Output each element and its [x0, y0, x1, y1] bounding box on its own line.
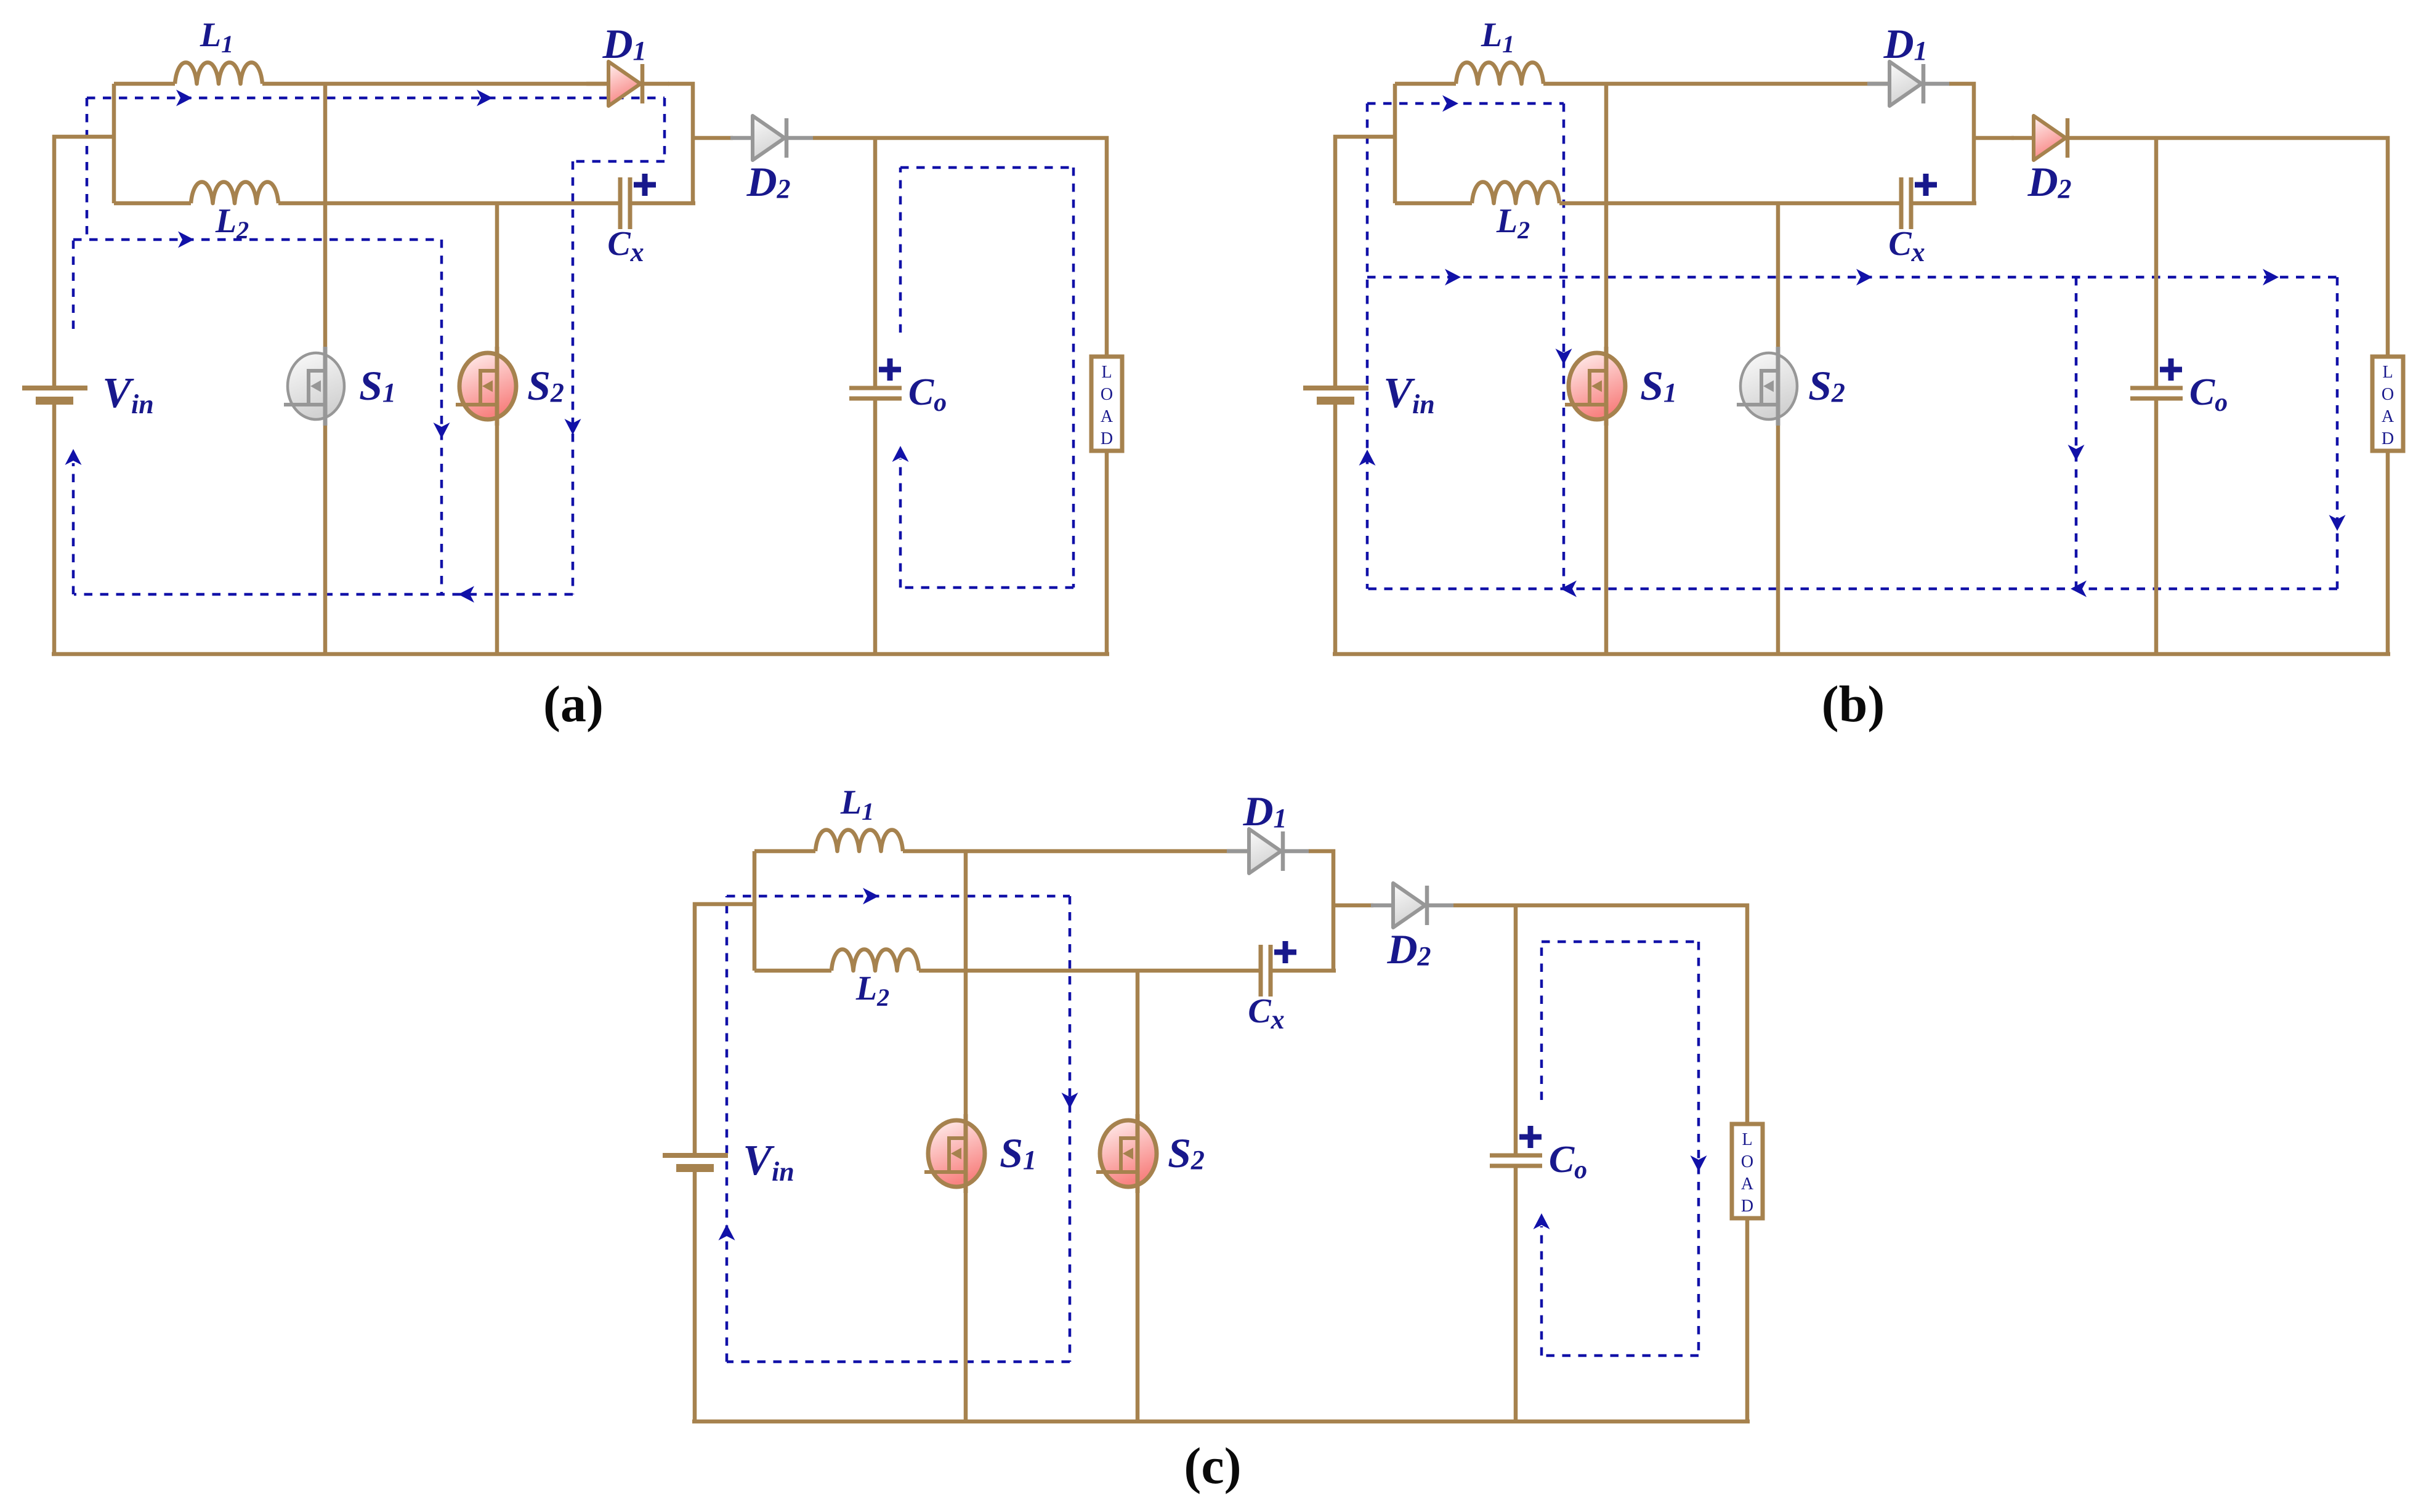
wire: dashed current path b-L1 top run	[1367, 95, 1564, 112]
wire: dashed current path a down right of S2	[565, 161, 581, 594]
wire: circuit b Co branch from output rail down to top plate	[2154, 138, 2159, 386]
wire: circuit b L2 rail from coil to Cx left plate	[1559, 201, 1899, 206]
capacitor Cx of circuit a	[620, 177, 630, 229]
wire: dashed input loop c right	[1062, 896, 1078, 1362]
capacitor Cx of circuit c	[1261, 945, 1271, 997]
wire: circuit a Cx right plate to corner below D1	[632, 201, 695, 206]
svg-text:L: L	[1742, 1130, 1752, 1149]
wire: circuit c Cx right plate to corner below D1	[1272, 969, 1336, 973]
wire: circuit c S1 branch from top rail down to bottom rail	[964, 851, 968, 1421]
wire: dashed output loop c bottom	[1545, 1354, 1699, 1357]
wire: circuit b battery negative lead down to bottom rail	[1333, 402, 1338, 654]
LOAD resistor of circuit c	[1732, 1124, 1763, 1218]
wire: circuit b node below D1 to D2 anode	[1974, 136, 2014, 140]
wire: circuit a top rail from node to L1	[114, 82, 175, 86]
wire: dashed output loop c top	[1542, 940, 1699, 944]
battery Vin of circuit c	[663, 1155, 728, 1172]
wire: dashed current path b down left of Co	[2068, 277, 2085, 589]
wire: circuit a L2 rail from node to L2 coil	[114, 201, 191, 206]
wire: dashed current path a leftward above Cx	[573, 160, 665, 163]
transistor S1 of circuit a	[284, 347, 344, 426]
wire: circuit a S2 branch from L2 rail down to bottom rail	[495, 203, 499, 654]
plus sign at Co of circuit c	[1519, 1126, 1542, 1148]
wire: circuit c L2 rail from coil to Cx left plate	[919, 969, 1259, 973]
diode D1 of circuit c	[1227, 829, 1309, 873]
wire: circuit a D1 cathode to corner and down to Cx node	[668, 84, 693, 203]
wire: circuit a L2 rail from coil to Cx left plate	[278, 201, 618, 206]
wire: circuit a Co branch from output rail down to top plate	[873, 138, 878, 386]
battery Vin of circuit a	[22, 388, 87, 405]
wire: dashed input loop c left	[719, 896, 735, 1362]
wire: dashed current path b left vertical	[1359, 103, 1376, 589]
wire: circuit b Cx right plate to corner below D1	[1913, 201, 1976, 206]
svg-text:D: D	[1101, 429, 1113, 448]
diode D2 of circuit b	[2011, 116, 2094, 160]
diode D1 of circuit a	[586, 62, 669, 106]
plus sign at Cx of circuit b	[1915, 174, 1937, 196]
LOAD resistor of circuit b	[2372, 357, 2403, 451]
wire: circuit c D1 cathode to corner and down to Cx node	[1309, 851, 1333, 971]
wire: dashed current path a bottom return	[74, 586, 573, 603]
inductor L2 of circuit a	[191, 182, 278, 204]
inductor L1 of circuit b	[1456, 63, 1543, 84]
wire: circuit b output rail down to LOAD and bottom rail	[2386, 451, 2390, 654]
wire: dashed current path b bottom return	[1367, 581, 2337, 597]
svg-text:(a): (a)	[543, 676, 604, 733]
transistor S1 of circuit c	[924, 1114, 985, 1193]
diode D1 of circuit b	[1867, 62, 1950, 106]
wire: circuit a node below D1 to D2 anode	[693, 136, 733, 140]
plus sign at Co of circuit a	[879, 358, 901, 381]
svg-text:O: O	[1101, 385, 1113, 404]
wire: dashed current path a return up to battery	[65, 240, 82, 594]
plus sign at Co of circuit b	[2160, 358, 2182, 381]
wire: circuit b L2 rail from node to L2 coil	[1395, 201, 1472, 206]
svg-text:O: O	[2382, 385, 2394, 404]
wire: circuit b left vertical joining L1 and L2 rails	[1393, 84, 1397, 203]
svg-text:(b): (b)	[1822, 676, 1885, 733]
wire: circuit a battery positive lead up and right to input node	[54, 137, 114, 386]
transistor S1 of circuit b	[1565, 347, 1625, 426]
wire: circuit a left vertical joining L1 and L2 rails	[112, 84, 116, 203]
plus sign at Cx of circuit c	[1274, 941, 1296, 963]
capacitor Cx of circuit b	[1901, 177, 1911, 229]
wire: dashed input loop c bottom	[727, 1360, 1070, 1364]
inductor L2 of circuit b	[1472, 182, 1559, 204]
wire: circuit a D2 cathode to output rail and right corner	[813, 138, 1107, 357]
wire: circuit c battery negative lead down to bottom rail	[693, 1170, 697, 1421]
LOAD resistor of circuit a	[1091, 357, 1122, 451]
wire: dashed output loop c left with arrow up through Co	[1534, 942, 1550, 1356]
wire: circuit c top rail from node to L1	[754, 849, 815, 854]
svg-text:D: D	[2382, 429, 2394, 448]
wire: dashed output loop a top	[900, 166, 1073, 169]
capacitor Co of circuit c	[1490, 1155, 1542, 1166]
svg-text:A: A	[2382, 407, 2395, 426]
inductor L1 of circuit a	[175, 63, 262, 84]
wire: dashed current path a-L2 run	[73, 232, 442, 248]
wire: circuit c battery positive lead up and right to input node	[695, 904, 754, 1153]
wire: circuit c node below D1 to D2 anode	[1333, 904, 1373, 908]
wire: circuit b S2 branch from L2 rail down to bottom rail	[1776, 203, 1780, 654]
wire: circuit b Co bottom plate down to bottom rail	[2154, 400, 2159, 654]
transistor S2 of circuit a	[456, 347, 516, 426]
wire: circuit b top rail from L1 to D1 anode	[1543, 82, 1891, 86]
svg-text:D: D	[1741, 1197, 1753, 1216]
wire: dashed current path a left vertical upper	[86, 98, 89, 240]
wire: dashed current path b long middle run	[1367, 269, 2337, 286]
wire: dashed output loop c right	[1691, 942, 1707, 1356]
wire: dashed current path b down right side	[2329, 277, 2346, 589]
svg-text:O: O	[1741, 1152, 1753, 1171]
wire: circuit b D2 cathode to output rail and right corner	[2094, 138, 2388, 357]
wire: dashed current path a-L1 top run	[87, 90, 665, 107]
wire: dashed input loop c top	[727, 888, 1070, 905]
diode D2 of circuit c	[1371, 883, 1453, 928]
wire: circuit a battery negative lead down to bottom rail	[52, 402, 57, 654]
wire: circuit a top rail from L1 to D1 anode	[262, 82, 610, 86]
transistor S2 of circuit c	[1096, 1114, 1157, 1193]
wire: circuit b S1 branch from top rail down to bottom rail	[1604, 84, 1609, 654]
wire: circuit c bottom return rail	[692, 1420, 1750, 1424]
battery Vin of circuit b	[1303, 388, 1368, 405]
wire: circuit c output rail down to LOAD and bottom rail	[1745, 1218, 1750, 1421]
wire: circuit a bottom return rail	[52, 652, 1109, 657]
wire: circuit c Co branch from output rail down to top plate	[1514, 905, 1518, 1154]
wire: dashed current path a down right of D1	[663, 98, 666, 161]
wire: circuit a output rail down to LOAD and bottom rail	[1105, 451, 1109, 654]
wire: dashed output loop a right	[1072, 168, 1075, 588]
wire: circuit a Co bottom plate down to bottom rail	[873, 400, 878, 654]
wire: circuit c D2 cathode to output rail and right corner	[1453, 905, 1747, 1124]
wire: dashed output loop a left with arrow up through Co	[892, 168, 909, 588]
wire: circuit b D1 cathode to corner and down to Cx node	[1949, 84, 1974, 203]
wire: circuit c S2 branch from L2 rail down to bottom rail	[1136, 971, 1140, 1421]
wire: dashed output loop a bottom	[905, 586, 1073, 589]
wire: circuit b battery positive lead up and right to input node	[1335, 137, 1395, 386]
svg-text:A: A	[1741, 1174, 1754, 1194]
wire: circuit b bottom return rail	[1333, 652, 2390, 657]
plus sign at Cx of circuit a	[634, 174, 656, 196]
wire: circuit c left vertical joining L1 and L2 rails	[753, 851, 757, 971]
inductor L1 of circuit c	[815, 830, 903, 852]
wire: circuit c top rail from L1 to D1 anode	[903, 849, 1251, 854]
capacitor Co of circuit b	[2130, 388, 2183, 398]
svg-text:(c): (c)	[1184, 1437, 1241, 1495]
wire: dashed current path b down left of S1	[1556, 103, 1572, 589]
wire: dashed current path a down between S1 S2	[434, 240, 450, 594]
svg-text:A: A	[1101, 407, 1113, 426]
wire: circuit c L2 rail from node to L2 coil	[754, 969, 831, 973]
svg-text:L: L	[1101, 363, 1112, 382]
svg-text:L: L	[2382, 363, 2393, 382]
wire: circuit b top rail from node to L1	[1395, 82, 1456, 86]
wire: circuit a S1 branch from top rail down to bottom rail	[323, 84, 328, 654]
diode D2 of circuit a	[730, 116, 813, 160]
capacitor Co of circuit a	[849, 388, 902, 398]
transistor S2 of circuit b	[1737, 347, 1797, 426]
inductor L2 of circuit c	[831, 950, 919, 971]
wire: circuit c Co bottom plate down to bottom rail	[1514, 1168, 1518, 1421]
